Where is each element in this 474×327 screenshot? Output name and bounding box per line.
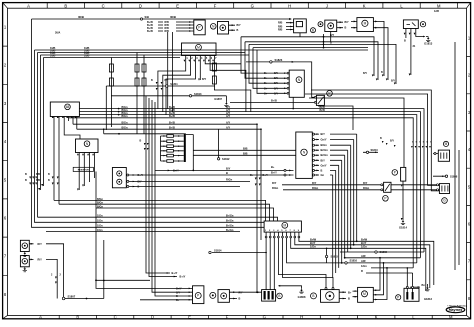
svg-text:H: H xyxy=(300,314,303,319)
svg-text:M: M xyxy=(283,224,286,228)
svg-text:B+/Y: B+/Y xyxy=(263,174,269,177)
svg-text:30/B: 30/B xyxy=(170,15,176,19)
svg-text:S1807: S1807 xyxy=(68,295,76,299)
svg-text:B/Gn: B/Gn xyxy=(97,198,103,201)
svg-text:B: B xyxy=(151,79,153,82)
svg-text:B+/B: B+/B xyxy=(169,122,175,125)
svg-text:1/Gn: 1/Gn xyxy=(97,220,103,223)
svg-text:G1813: G1813 xyxy=(424,42,433,46)
svg-text:G: G xyxy=(251,3,254,8)
svg-text:B/Y: B/Y xyxy=(321,132,326,136)
svg-text:S1811: S1811 xyxy=(170,82,178,86)
svg-text:B/Gn: B/Gn xyxy=(122,115,128,118)
svg-text:B/Gn: B/Gn xyxy=(321,143,328,147)
svg-text:B+/Y: B+/Y xyxy=(172,271,178,275)
svg-text:B+/B: B+/B xyxy=(147,30,153,33)
svg-text:31/B: 31/B xyxy=(50,55,55,58)
svg-text:B+/B: B+/B xyxy=(169,127,175,130)
svg-text:P: P xyxy=(397,296,399,300)
svg-text:Br/Y: Br/Y xyxy=(310,241,316,245)
svg-text:B: B xyxy=(237,29,239,32)
svg-text:B: B xyxy=(138,186,140,189)
svg-text:M: M xyxy=(445,142,448,146)
svg-text:A/R: A/R xyxy=(361,259,366,263)
svg-text:B: B xyxy=(330,42,332,45)
svg-text:B/Y: B/Y xyxy=(274,77,278,80)
svg-text:30/B: 30/B xyxy=(78,15,84,19)
svg-text:1/Gn: 1/Gn xyxy=(361,244,367,248)
svg-text:R/Y: R/Y xyxy=(38,258,43,262)
svg-text:B/Y: B/Y xyxy=(176,291,181,294)
svg-text:1/Gn: 1/Gn xyxy=(361,264,367,268)
svg-text:B/Y: B/Y xyxy=(274,87,278,90)
svg-text:S1806: S1806 xyxy=(380,250,388,254)
svg-text:Br/Gn: Br/Gn xyxy=(321,153,329,157)
svg-text:B/B: B/B xyxy=(243,146,248,150)
svg-text:B: B xyxy=(48,179,50,182)
svg-text:B: B xyxy=(226,171,228,175)
svg-text:B/Y: B/Y xyxy=(202,78,207,81)
svg-text:A/Y: A/Y xyxy=(226,127,231,130)
svg-text:M: M xyxy=(197,46,200,50)
svg-text:B/Y: B/Y xyxy=(321,158,326,162)
svg-text:B+/B: B+/B xyxy=(169,115,175,118)
svg-text:B+: B+ xyxy=(176,299,180,302)
svg-text:R/B: R/B xyxy=(278,29,283,32)
svg-text:30/A: 30/A xyxy=(55,32,60,35)
svg-text:M: M xyxy=(449,314,453,319)
svg-text:G1808: G1808 xyxy=(298,295,306,299)
svg-text:K: K xyxy=(375,314,378,319)
svg-text:B+/Y: B+/Y xyxy=(271,171,277,175)
svg-text:S1810: S1810 xyxy=(371,149,379,152)
svg-text:B: B xyxy=(381,71,383,74)
svg-text:A/Y: A/Y xyxy=(226,122,231,125)
svg-text:R/Gn: R/Gn xyxy=(363,186,370,190)
svg-text:B+: B+ xyxy=(271,165,275,169)
svg-text:M: M xyxy=(363,292,366,296)
svg-text:B+/Y: B+/Y xyxy=(138,174,144,177)
svg-text:S1812: S1812 xyxy=(222,157,230,161)
svg-text:R/Y: R/Y xyxy=(38,242,43,246)
svg-text:P: P xyxy=(394,171,396,175)
svg-text:B: B xyxy=(64,3,67,8)
svg-text:B: B xyxy=(345,27,347,30)
svg-text:B/Gn: B/Gn xyxy=(122,122,128,125)
svg-text:R/Y: R/Y xyxy=(363,181,368,185)
svg-text:S1814: S1814 xyxy=(214,248,222,252)
svg-text:P: P xyxy=(328,92,330,96)
svg-text:Br/W: Br/W xyxy=(361,237,368,241)
svg-text:B/Y: B/Y xyxy=(165,79,169,82)
svg-text:M: M xyxy=(437,3,441,8)
svg-text:S1813: S1813 xyxy=(194,92,202,96)
svg-text:B+: B+ xyxy=(348,290,352,294)
svg-text:E: E xyxy=(176,3,179,8)
svg-text:D: D xyxy=(151,314,154,319)
svg-text:R/Gn: R/Gn xyxy=(312,186,319,190)
svg-text:B/Gn: B/Gn xyxy=(97,202,103,205)
svg-text:B/Y: B/Y xyxy=(138,181,143,184)
svg-text:S1823: S1823 xyxy=(275,58,283,62)
svg-text:B: B xyxy=(176,295,178,298)
svg-text:© Haynes Publishing: © Haynes Publishing xyxy=(447,305,468,308)
svg-text:Gn/Y: Gn/Y xyxy=(321,138,327,142)
svg-text:R/B: R/B xyxy=(165,30,170,33)
svg-text:B+/Y: B+/Y xyxy=(173,169,179,173)
svg-text:K: K xyxy=(363,3,366,8)
svg-text:B/Gn: B/Gn xyxy=(97,205,103,208)
svg-text:S/B: S/B xyxy=(145,15,149,19)
svg-text:C: C xyxy=(114,314,117,319)
svg-text:G: G xyxy=(263,314,266,319)
svg-text:B: B xyxy=(380,137,382,140)
svg-text:R/Y: R/Y xyxy=(272,181,277,185)
svg-text:B: B xyxy=(312,28,314,32)
svg-text:S1808: S1808 xyxy=(450,175,458,178)
svg-text:A/R: A/R xyxy=(361,254,366,258)
svg-text:Bn: Bn xyxy=(422,284,426,287)
svg-text:R/Gn: R/Gn xyxy=(272,186,279,190)
svg-text:B: B xyxy=(321,168,323,172)
svg-text:D: D xyxy=(139,3,142,8)
svg-text:1/Gn: 1/Gn xyxy=(97,229,103,232)
svg-text:B/Y: B/Y xyxy=(390,140,394,143)
svg-text:1/Gn: 1/Gn xyxy=(97,215,103,218)
svg-text:68: 68 xyxy=(66,105,70,109)
svg-text:J: J xyxy=(326,3,328,8)
svg-text:B/Y: B/Y xyxy=(274,72,278,75)
svg-text:H: H xyxy=(288,3,291,8)
svg-text:Br/Y: Br/Y xyxy=(361,241,367,245)
svg-text:Br/Gn: Br/Gn xyxy=(321,148,329,152)
svg-text:1/Gn: 1/Gn xyxy=(310,244,316,248)
svg-text:B: B xyxy=(140,140,142,143)
svg-text:31/B: 31/B xyxy=(84,55,89,58)
svg-text:B+/Y: B+/Y xyxy=(180,275,186,279)
svg-text:P: P xyxy=(197,294,199,298)
svg-text:F: F xyxy=(214,3,217,8)
svg-text:B/Y: B/Y xyxy=(391,80,395,83)
svg-text:B/R: B/R xyxy=(36,179,41,182)
svg-text:R/Y: R/Y xyxy=(312,181,317,185)
svg-text:B/B: B/B xyxy=(243,151,248,155)
svg-text:R: R xyxy=(361,269,363,273)
svg-text:P: P xyxy=(198,26,200,30)
svg-text:B/Y: B/Y xyxy=(226,167,231,171)
svg-text:B/Gn: B/Gn xyxy=(122,127,128,130)
svg-text:B/Y: B/Y xyxy=(363,72,367,75)
svg-text:B/Y: B/Y xyxy=(237,24,242,27)
svg-text:B+/Gn: B+/Gn xyxy=(226,215,234,218)
svg-text:B: B xyxy=(25,173,27,176)
svg-text:J: J xyxy=(338,314,340,319)
svg-text:B+/Y: B+/Y xyxy=(176,288,182,291)
svg-text:A: A xyxy=(39,314,42,319)
svg-text:B: B xyxy=(48,173,50,176)
svg-text:B/Y: B/Y xyxy=(274,92,278,95)
svg-text:G1812: G1812 xyxy=(424,297,433,301)
svg-text:S1815: S1815 xyxy=(331,255,339,259)
svg-text:R/Gn: R/Gn xyxy=(226,178,233,182)
svg-text:Haynes: Haynes xyxy=(449,307,464,312)
svg-text:B: B xyxy=(348,297,350,301)
svg-text:B: B xyxy=(278,294,280,298)
svg-text:F: F xyxy=(226,314,229,319)
svg-text:B: B xyxy=(404,40,406,43)
svg-text:A/Y: A/Y xyxy=(226,115,231,118)
svg-text:B/Y: B/Y xyxy=(330,34,335,37)
svg-text:G1814: G1814 xyxy=(399,226,408,230)
svg-text:A: A xyxy=(27,3,30,8)
svg-text:12/8: 12/8 xyxy=(434,10,439,13)
svg-text:M: M xyxy=(364,22,367,26)
svg-text:S1816: S1816 xyxy=(350,258,358,262)
svg-text:B+/Gn: B+/Gn xyxy=(226,220,234,223)
svg-text:B: B xyxy=(312,294,314,298)
svg-text:B: B xyxy=(239,298,241,301)
svg-text:B+/Gn: B+/Gn xyxy=(226,225,234,228)
svg-text:Br/W: Br/W xyxy=(310,237,317,241)
svg-text:B: B xyxy=(76,314,79,319)
svg-text:Br/B: Br/B xyxy=(320,109,325,112)
svg-text:B/R: B/R xyxy=(36,173,41,176)
svg-text:C: C xyxy=(102,3,105,8)
svg-text:Gn: Gn xyxy=(321,173,325,177)
svg-text:RESISTOR: RESISTOR xyxy=(78,170,90,172)
svg-text:E: E xyxy=(188,314,191,319)
svg-text:R/B: R/B xyxy=(278,22,283,25)
svg-text:B/Y: B/Y xyxy=(274,82,278,85)
svg-text:P: P xyxy=(384,197,386,201)
svg-text:R/Y: R/Y xyxy=(239,291,244,294)
svg-text:B+/Gn: B+/Gn xyxy=(226,229,234,232)
svg-text:B+/B: B+/B xyxy=(271,99,277,102)
svg-text:G1807: G1807 xyxy=(214,97,222,101)
svg-text:B: B xyxy=(25,179,27,182)
svg-text:Gn/Y: Gn/Y xyxy=(321,163,327,167)
svg-text:B/Y: B/Y xyxy=(345,21,350,24)
svg-text:1/Gn: 1/Gn xyxy=(97,225,103,228)
